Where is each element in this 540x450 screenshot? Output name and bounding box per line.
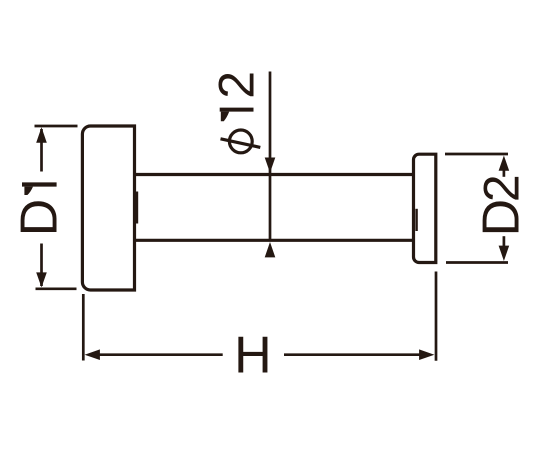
svg-text:D: D <box>11 199 69 237</box>
H right extension line <box>435 272 438 361</box>
phi12 arrow up under shaft bottom <box>265 242 276 257</box>
D2 dimension line lower segment <box>503 236 506 247</box>
D1 arrow down <box>36 272 47 287</box>
H dimension line left segment <box>99 353 223 356</box>
svg-text:2: 2 <box>473 174 529 202</box>
shaft seat notch on flange <box>136 192 139 224</box>
phi12 arrow down onto shaft top <box>265 158 276 173</box>
D1 top extension line <box>35 125 78 128</box>
D2 dimension line upper segment <box>503 168 506 177</box>
svg-text:2: 2 <box>209 71 265 99</box>
label phi12 digit 1 flag <box>221 112 229 122</box>
flange plate (left body, D1) <box>82 126 134 290</box>
shaft top line <box>136 173 414 176</box>
H arrow right <box>419 349 434 360</box>
svg-text:H: H <box>234 327 272 385</box>
shaft bottom line <box>136 239 414 242</box>
svg-text:D: D <box>472 199 530 237</box>
D2 arrow down <box>499 246 510 261</box>
D2 top extension line <box>445 153 508 156</box>
end knob (right body, D2) <box>414 154 436 262</box>
D1 bottom extension line <box>36 287 77 290</box>
phi12 leader line <box>269 72 272 241</box>
H left extension line <box>82 294 85 361</box>
D2 bottom extension line <box>446 261 508 264</box>
H arrow left <box>85 349 100 360</box>
label phi12 digit 1 stem <box>220 108 254 112</box>
D1 arrow up <box>36 127 47 142</box>
label D1 digit 1 stem <box>22 182 57 186</box>
D1 dimension line upper segment <box>40 129 43 172</box>
shaft seat notch on knob <box>415 209 417 231</box>
label D1 digit 1 flag <box>24 187 33 195</box>
H dimension line right segment <box>284 353 420 356</box>
phi symbol circle <box>229 130 252 153</box>
phi symbol slash <box>221 139 261 148</box>
D2 arrow up <box>499 156 510 171</box>
D1 dimension line lower segment <box>40 244 43 287</box>
